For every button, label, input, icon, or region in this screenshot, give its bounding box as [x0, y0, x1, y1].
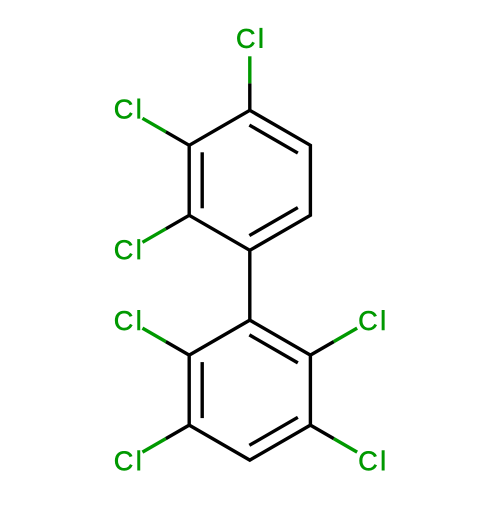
C-Cl bond lower-left ring1 (black half): [166, 215, 189, 229]
C-Cl bond upper-left ring2 (green half): [142, 328, 165, 342]
double bond inner line B-C (left edge, ring 1): [200, 152, 203, 208]
double bond inner line P4-P3 (bottom-right edge, ring 2): [249, 417, 297, 445]
C-Cl bond upper-right ring2 (black half): [310, 342, 333, 356]
C-Cl bond lower-left ring1 (green half): [142, 229, 165, 243]
Cl label upper-left ring1: [115, 99, 140, 119]
C-Cl bond upper-right ring2 (green half): [334, 328, 357, 342]
Cl label lower-left ring2: [115, 451, 140, 471]
C-Cl bond lower-left ring2 (green half): [142, 439, 165, 453]
double bond inner line P6-P5 (left edge, ring 2): [200, 362, 203, 418]
C-Cl bond to top Cl (green half): [248, 56, 251, 83]
biphenyl single bond (ring1 C-ring2 C): [248, 250, 251, 320]
Cl label top: [237, 28, 262, 48]
double bond inner line P1-P2 (top-right edge, ring 2): [249, 335, 297, 363]
benzene ring 1 (top phenyl): [189, 110, 310, 250]
Cl label upper-left ring2: [115, 310, 140, 330]
C-Cl bond upper-left ring1 (black half): [166, 132, 189, 146]
C-Cl bond to top Cl (black half): [248, 83, 251, 110]
C-Cl bond lower-right ring2 (black half): [310, 425, 333, 439]
C-Cl bond lower-left ring2 (black half): [166, 425, 189, 439]
double bond inner line D-E (bottom-right edge, ring 1): [249, 208, 297, 236]
C-Cl bond upper-left ring2 (black half): [166, 342, 189, 356]
benzene ring 2 (bottom phenyl): [189, 320, 310, 460]
C-Cl bond upper-left ring1 (green half): [142, 118, 165, 132]
Cl label lower-right ring2: [360, 451, 385, 471]
Cl label upper-right ring2: [360, 310, 385, 330]
Cl label lower-left ring1: [115, 239, 140, 259]
double bond inner line F-A (top-right edge, ring 1): [249, 125, 297, 153]
C-Cl bond lower-right ring2 (green half): [334, 439, 357, 453]
